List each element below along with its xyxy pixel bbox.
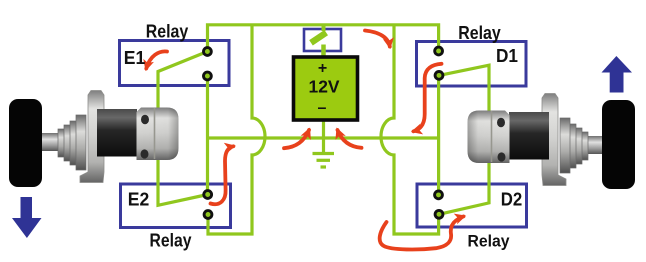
- svg-text:D1: D1: [496, 46, 518, 66]
- wire top bus to switch: [322, 25, 326, 31]
- switch lever: [311, 33, 326, 43]
- contact D1 bottom: [435, 72, 443, 80]
- contact E1 top: [204, 48, 212, 56]
- wire top bus (battery + rail): [208, 25, 439, 52]
- contact D2 bottom: [435, 210, 443, 218]
- svg-text:–: –: [318, 100, 327, 117]
- red arrow into battery minus (left): [284, 130, 309, 148]
- red arrow E2 current up to ground bus: [211, 146, 234, 204]
- contact D2 top: [435, 191, 443, 199]
- wire left motor terminal B to relay lever E2: [158, 150, 208, 205]
- contact E2 bottom: [204, 211, 212, 219]
- contact D1 top: [435, 47, 443, 55]
- svg-text:Relay: Relay: [146, 21, 189, 42]
- wire D1 bottom contact to D2 top contact: [437, 75, 440, 194]
- wire battery - to ground: [322, 121, 325, 152]
- wire D2 bottom contact to top bus via x=394 with hop: [381, 26, 439, 235]
- red arrow into battery minus (right): [338, 130, 362, 148]
- blue arrow down (left wheel direction): [12, 197, 42, 238]
- battery 12V: [294, 57, 358, 120]
- right motor M2: [468, 94, 607, 186]
- wire ground bus: [208, 136, 439, 139]
- switch box S1: [304, 29, 341, 51]
- red arrow top bus to D-side drop: [365, 31, 390, 47]
- left wheel: [9, 99, 42, 187]
- svg-text:Relay: Relay: [150, 230, 193, 251]
- wire E2 bottom contact to top bus via x=252 with hop: [208, 26, 265, 235]
- blue arrow up (right wheel direction): [602, 56, 633, 93]
- red arrow D1 current down to ground bus: [414, 64, 442, 132]
- svg-text:Relay: Relay: [458, 22, 501, 43]
- left motor M1: [40, 91, 179, 183]
- wire right motor terminal B to relay lever D2: [439, 150, 489, 214]
- contact E1 bottom: [204, 72, 212, 80]
- wire E1 bottom contact to E2 top contact: [206, 76, 209, 195]
- red arrow D2 loop (lever motion / current): [380, 216, 464, 249]
- relay box D2: [417, 184, 527, 227]
- wire switch to battery +: [321, 45, 326, 58]
- svg-text:+: +: [318, 60, 327, 77]
- relay lever E1 and wire to left motor terminal A: [158, 52, 207, 113]
- contact E2 top: [204, 191, 212, 199]
- relay lever D1 and wire to right motor terminal A: [439, 65, 489, 115]
- ground: [313, 154, 335, 168]
- svg-text:D2: D2: [501, 190, 523, 210]
- red arrow in E1 (lever motion): [146, 51, 167, 68]
- svg-text:Relay: Relay: [468, 231, 510, 250]
- relay box E1: [120, 41, 230, 86]
- svg-text:12V: 12V: [309, 77, 340, 97]
- relay box D1: [417, 42, 527, 87]
- svg-text:E1: E1: [124, 48, 146, 68]
- svg-text:E2: E2: [128, 190, 150, 210]
- right wheel: [602, 100, 635, 189]
- relay box E2: [121, 184, 231, 228]
